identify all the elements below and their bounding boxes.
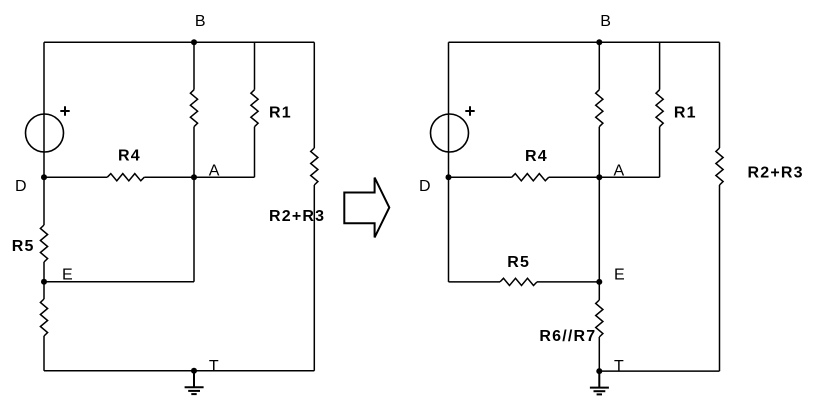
svg-text:R5: R5	[507, 254, 530, 271]
node B (dot)	[191, 39, 197, 45]
wire bottom rail left circuit	[44, 370, 314, 372]
wire E rail left part	[449, 281, 501, 283]
resistor R5 (zigzag on left branch)	[40, 225, 47, 262]
wire left branch between R5 and lower resistor	[43, 262, 45, 299]
voltage source plus sign right circuit	[465, 106, 474, 115]
wire left branch upper (source branch B to D)	[43, 42, 45, 225]
wire left branch to bottom rail	[43, 336, 45, 371]
wire right branch bottom	[719, 185, 721, 371]
node T (dot)	[191, 368, 197, 374]
svg-text:D: D	[419, 178, 431, 195]
svg-text:A: A	[209, 163, 220, 180]
wire middle branch B down	[598, 42, 600, 89]
resistor R1 right circuit	[656, 90, 663, 127]
resistor R4	[107, 174, 144, 181]
wire R1 branch bottom to A level	[254, 127, 256, 178]
svg-text:R1: R1	[674, 105, 697, 122]
resistor unlabeled (left branch below E)	[40, 299, 47, 336]
wire middle branch to T	[598, 337, 600, 371]
wire R1 branch top	[254, 42, 256, 89]
wire R1 branch bottom to A level	[659, 127, 661, 178]
node T right (dot)	[596, 368, 602, 374]
wire D to R4	[44, 176, 107, 178]
svg-text:R6//R7: R6//R7	[539, 328, 596, 345]
wire R4 to A to R1 branch right circuit	[549, 176, 660, 178]
svg-text:R1: R1	[269, 105, 292, 122]
resistor R5 right circuit (on E rail)	[500, 278, 537, 285]
transform arrow	[344, 178, 389, 238]
svg-text:D: D	[15, 178, 27, 195]
node A right (dot)	[596, 174, 602, 180]
voltage source plus sign	[60, 106, 69, 115]
svg-text:A: A	[614, 163, 625, 180]
svg-text:E: E	[62, 266, 73, 283]
wire E rail	[44, 281, 194, 283]
svg-text:R2+R3: R2+R3	[748, 165, 804, 182]
ground symbol right circuit	[590, 371, 609, 394]
wire right branch bottom	[313, 185, 315, 371]
wire middle branch A to E	[598, 127, 600, 300]
svg-text:R5: R5	[12, 238, 35, 255]
resistor R2+R3 (right branch)	[311, 148, 318, 185]
wire middle branch through A to E rail	[193, 127, 195, 282]
svg-text:E: E	[614, 266, 625, 283]
wire top rail left circuit	[44, 41, 314, 43]
resistor R1	[251, 90, 258, 127]
wire D to R4 right circuit	[449, 176, 512, 178]
wire R1 branch top	[659, 42, 661, 89]
svg-text:T: T	[209, 358, 219, 375]
voltage source V1 circle right circuit	[431, 114, 469, 152]
wire right branch top	[313, 42, 315, 148]
wire middle branch B down	[193, 42, 195, 89]
resistor unlabeled (middle branch B to A)	[190, 90, 197, 127]
resistor R6//R7 (middle branch below E)	[596, 300, 603, 337]
wire top rail right circuit	[449, 41, 720, 43]
node D right (dot)	[446, 174, 452, 180]
node A (dot)	[191, 174, 197, 180]
node B right (dot)	[596, 39, 602, 45]
wire E rail right part	[537, 281, 599, 283]
svg-text:B: B	[600, 13, 611, 30]
wire R4 to A to R1 branch	[144, 176, 254, 178]
svg-text:R4: R4	[525, 148, 548, 165]
wire left branch (source branch B to D to E rail)	[448, 42, 450, 282]
node E (dot)	[41, 279, 47, 285]
voltage source V1 circle	[26, 114, 64, 152]
svg-text:B: B	[195, 13, 206, 30]
node E right (dot)	[596, 279, 602, 285]
wire T to right branch	[599, 370, 719, 372]
ground symbol left circuit	[185, 371, 204, 394]
svg-text:R4: R4	[118, 148, 141, 165]
wire right branch top	[719, 42, 721, 148]
node D (dot)	[41, 174, 47, 180]
resistor unlabeled (middle branch B to A)	[596, 90, 603, 127]
resistor R4 right circuit	[512, 174, 549, 181]
svg-text:R2+R3: R2+R3	[269, 208, 325, 225]
resistor R2+R3 right circuit	[716, 148, 723, 185]
svg-text:T: T	[614, 358, 624, 375]
